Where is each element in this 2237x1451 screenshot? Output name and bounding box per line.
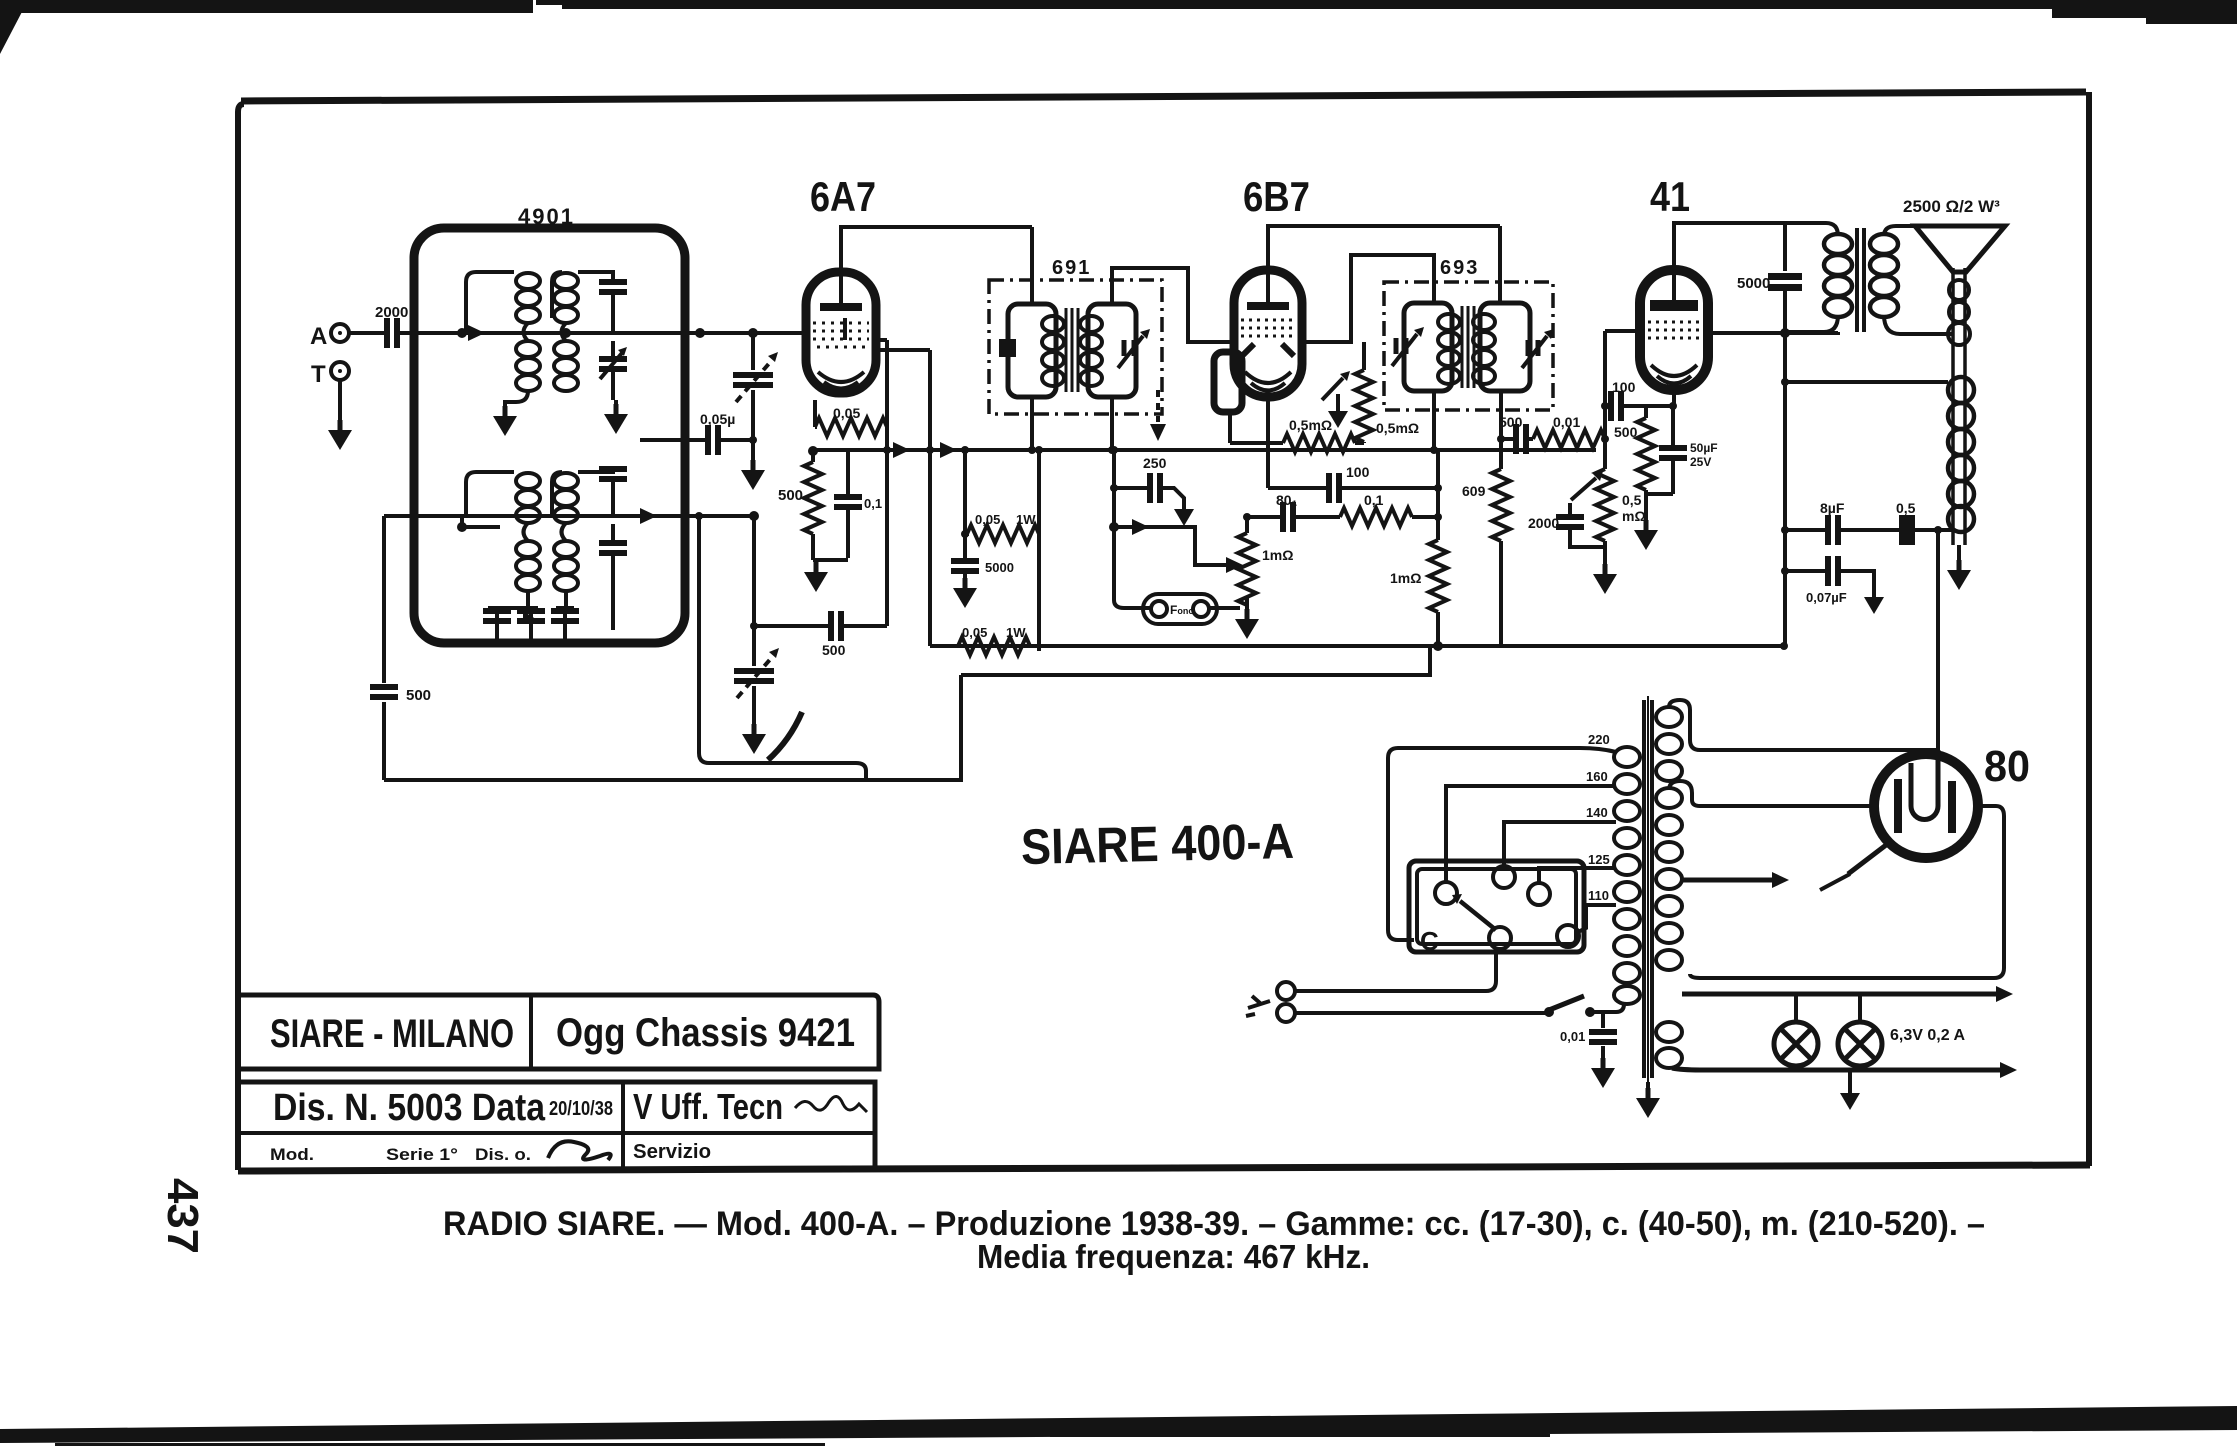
B+ vertical rail xyxy=(1783,333,1787,646)
selector terminal top-left xyxy=(1435,882,1457,904)
arrow on osc bus xyxy=(640,508,657,524)
41 grid dotted rows xyxy=(1648,322,1700,338)
mains plug fork xyxy=(1246,996,1270,1016)
691 secondary winding xyxy=(1080,316,1102,386)
speaker horn cone xyxy=(1915,226,2005,272)
41 plate top wire to output transformer xyxy=(1674,223,1826,270)
41 cathode arcs xyxy=(1651,365,1697,384)
pilot lamp 1 xyxy=(1774,1022,1818,1066)
terminal T xyxy=(331,362,349,380)
svg-text:0,5: 0,5 xyxy=(1622,492,1642,508)
ground of line bypass xyxy=(1591,1058,1615,1088)
svg-text:C: C xyxy=(1420,926,1439,956)
scan artifact: bottom black band xyxy=(0,1406,2237,1443)
heater line top with arrow xyxy=(1682,992,1996,997)
oscillator coil L5 xyxy=(516,473,540,523)
6A7 cathode arcs xyxy=(818,372,864,389)
691 primary top lead xyxy=(1030,227,1034,304)
tap 140 lead xyxy=(1504,822,1616,865)
grid-leak 1M vertical resistor xyxy=(1436,450,1440,646)
693 secondary winding xyxy=(1473,314,1495,384)
svg-text:110: 110 xyxy=(1588,888,1609,903)
svg-text:160: 160 xyxy=(1586,769,1608,784)
80 heater slash xyxy=(1848,842,1890,874)
svg-text:500: 500 xyxy=(406,687,431,704)
svg-text:Dis. N. 5003 Data: Dis. N. 5003 Data xyxy=(273,1087,546,1129)
svg-text:SIARE 400-A: SIARE 400-A xyxy=(1020,813,1294,875)
cathode bypass electrolytic xyxy=(1646,406,1673,520)
svg-text:140: 140 xyxy=(1586,805,1608,820)
volume potentiometer xyxy=(1245,517,1249,611)
svg-text:0,01: 0,01 xyxy=(1553,414,1580,430)
mains terminal upper xyxy=(1277,982,1295,1000)
selector terminal top-mid xyxy=(1493,866,1515,888)
oscillator feedback capacitor 500 xyxy=(754,624,887,628)
dropping resistor 0.05 1W lower xyxy=(958,637,1030,655)
terminal A xyxy=(331,324,349,342)
gang coupling slash xyxy=(768,712,802,760)
output transformer primary winding xyxy=(1824,234,1852,317)
cathode bypass capacitor xyxy=(813,450,848,560)
svg-text:0,5mΩ: 0,5mΩ xyxy=(1376,420,1419,436)
table row2 divider xyxy=(621,1082,625,1170)
wire from 0.5 cap junction down to rectifier xyxy=(1936,530,1940,750)
voice coil small loops xyxy=(1948,280,1970,345)
6B7 plate top wire to 693 xyxy=(1268,226,1500,270)
osc coil bottom lead xyxy=(526,591,530,608)
detector out capacitor 100 xyxy=(1268,486,1438,490)
41 screen wire to B+ xyxy=(1708,332,1838,333)
mains wire to selector common xyxy=(1295,950,1496,991)
HV secondary top lead to filament line xyxy=(1669,700,1938,750)
title block table xyxy=(241,995,879,1170)
svg-text:6A7: 6A7 xyxy=(810,173,876,220)
svg-text:693: 693 xyxy=(1440,257,1479,279)
693 secondary can xyxy=(1480,303,1530,391)
svg-text:100: 100 xyxy=(1346,464,1370,480)
6B7 cathode arcs xyxy=(1245,372,1291,391)
svg-text:500: 500 xyxy=(822,642,846,658)
scan artifact: top black bar left segment xyxy=(0,0,533,13)
ground of 41 cathode xyxy=(1634,520,1658,550)
ground below osc tuning cap xyxy=(742,724,766,754)
691 primary winding xyxy=(1042,316,1064,386)
aerial secondary coil L2 xyxy=(516,341,540,391)
selector terminal top-right xyxy=(1528,883,1550,905)
svg-text:0,07µF: 0,07µF xyxy=(1806,590,1847,605)
svg-text:Media frequenza: 467 kHz.: Media frequenza: 467 kHz. xyxy=(977,1238,1370,1275)
variable trimmer capacitor RF xyxy=(599,359,627,369)
screen feed resistor 0.05 1W xyxy=(967,525,1039,543)
IF return resistor 609 vertical xyxy=(1499,439,1503,646)
80 right plate wire to HV bottom xyxy=(1690,806,2004,978)
AVC bus xyxy=(961,646,1430,675)
osc grid coil hook xyxy=(552,472,562,518)
691 bottom leads xyxy=(1032,397,1112,450)
svg-text:0,01: 0,01 xyxy=(1560,1029,1585,1044)
grid blocking capacitor 100 xyxy=(1605,404,1646,408)
svg-text:609: 609 xyxy=(1462,483,1486,499)
svg-text:T: T xyxy=(311,361,326,388)
svg-text:50µF: 50µF xyxy=(1690,441,1718,455)
41 cathode lead xyxy=(1646,390,1674,418)
grid coil top to trimmer wire xyxy=(578,272,613,282)
osc grid leak vertical wire xyxy=(885,340,889,626)
coil link wire xyxy=(524,323,529,341)
mains switch xyxy=(1544,1007,1554,1017)
svg-text:2500 Ω/2 W³: 2500 Ω/2 W³ xyxy=(1903,197,2000,216)
svg-text:0,1: 0,1 xyxy=(864,496,882,511)
heater line bottom with arrow xyxy=(1672,1068,2000,1070)
80 plate right xyxy=(1948,781,1956,833)
aerial coil L1 hook wire xyxy=(466,272,514,333)
mains wire to switch xyxy=(1295,1011,1545,1015)
scan artifact: top-left diagonal fold mark xyxy=(0,8,24,54)
filter capacitor 8uF xyxy=(1828,515,1838,545)
oscillator section frame wire xyxy=(699,516,866,780)
bias arrow xyxy=(1571,478,1596,500)
691 secondary top lead to 6B7 xyxy=(1112,268,1234,342)
decoupling capacitor 250 xyxy=(1114,488,1184,502)
coupling capacitor 500 to 41 grid xyxy=(1501,437,1533,441)
6B7 anode bar xyxy=(1247,302,1289,310)
693 primary winding xyxy=(1438,314,1460,384)
svg-text:0,05: 0,05 xyxy=(833,405,860,421)
svg-text:4901: 4901 xyxy=(518,204,575,229)
handwritten signature in row2 xyxy=(795,1096,867,1112)
693 secondary bottom lead xyxy=(1499,391,1503,439)
voltage selector box inner xyxy=(1417,869,1576,944)
6A7 screen exit wires xyxy=(874,340,930,350)
selector terminal bottom-mid xyxy=(1489,927,1511,949)
padder capacitor top of osc right xyxy=(578,466,613,472)
tube 6B7 envelope xyxy=(1234,270,1302,397)
AVC resistor 0.5M horizontal xyxy=(1230,412,1364,443)
svg-text:100: 100 xyxy=(1612,379,1636,395)
series capacitor 500 on AVC return xyxy=(382,516,386,780)
oscillator tuning gang section xyxy=(752,516,756,726)
HV secondary winding loops xyxy=(1656,707,1682,970)
line bypass capacitor 0.01 xyxy=(1601,1012,1605,1060)
ground of pot xyxy=(1235,609,1259,639)
693 primary bottom lead xyxy=(1432,391,1436,450)
svg-text:2000: 2000 xyxy=(1528,515,1559,531)
B+ feed line into field coil xyxy=(1785,380,1948,384)
core ground xyxy=(1646,1082,1650,1090)
small ground at AVC xyxy=(1336,394,1340,404)
6A7 grid dotted rows xyxy=(813,323,869,347)
Fono jack xyxy=(1143,594,1217,624)
svg-text:A: A xyxy=(310,323,327,350)
svg-text:2000: 2000 xyxy=(375,304,408,321)
ground of RF trimmer xyxy=(604,404,628,434)
svg-text:250: 250 xyxy=(1143,455,1167,471)
svg-text:mΩ: mΩ xyxy=(1622,508,1646,524)
svg-text:6B7: 6B7 xyxy=(1243,173,1310,220)
svg-text:5000: 5000 xyxy=(985,560,1014,575)
grid coil L3 xyxy=(554,273,578,323)
6B7 side shield tab xyxy=(1214,352,1242,412)
fixed padder capacitor top RF xyxy=(599,282,627,292)
oscillator section lower: hook wire xyxy=(466,472,514,516)
wire A to coil box xyxy=(349,331,460,335)
rectifier tube 80 xyxy=(1874,754,1978,858)
mains terminal lower xyxy=(1277,1004,1295,1022)
svg-text:0,05µ: 0,05µ xyxy=(700,411,735,427)
pilot lamp 2 xyxy=(1838,1022,1882,1066)
padder capacitor row right xyxy=(556,608,574,643)
table row2+3 box xyxy=(241,1082,875,1170)
antenna series capacitor 2000 xyxy=(387,318,397,348)
selector terminal bottom-right xyxy=(1557,925,1579,947)
svg-text:Dis. o.: Dis. o. xyxy=(475,1145,531,1164)
svg-text:0,05: 0,05 xyxy=(962,625,987,640)
coil link wire xyxy=(562,523,567,541)
6B7 diode line to 693 primary jog xyxy=(1302,255,1434,342)
voltage selector box outer xyxy=(1409,861,1584,952)
svg-text:Servizio: Servizio xyxy=(633,1141,711,1163)
svg-text:0,5: 0,5 xyxy=(1896,500,1916,516)
tube 41 envelope xyxy=(1640,270,1708,390)
svg-text:V Uff. Tecn: V Uff. Tecn xyxy=(633,1086,783,1127)
screen resistor 0.05 zigzag xyxy=(815,400,887,450)
691 secondary trimmer xyxy=(1124,340,1134,356)
tube 6A7 envelope xyxy=(806,272,876,393)
svg-text:8µF: 8µF xyxy=(1820,500,1845,516)
5000 tone capacitor xyxy=(1783,223,1787,333)
coil unit 4901 box xyxy=(414,228,685,643)
AVC dashed arrow at 691 xyxy=(1156,390,1160,422)
output transformer core xyxy=(1857,228,1864,332)
AF take-off wire to pot wiper xyxy=(1114,527,1228,565)
grid return resistor 0.5M vertical xyxy=(1362,342,1366,443)
svg-text:1mΩ: 1mΩ xyxy=(1390,570,1421,586)
ground of screen bypass xyxy=(953,578,977,608)
ground of bias pot xyxy=(1593,564,1617,594)
tap 110 lead xyxy=(1578,905,1616,932)
grid coil hook wire xyxy=(552,272,562,318)
svg-text:Ogg Chassis 9421: Ogg Chassis 9421 xyxy=(556,1011,855,1055)
dashed shield box 691 xyxy=(989,280,1162,414)
80 left plate wire to HV top xyxy=(1669,781,1874,806)
tap 160 lead xyxy=(1446,786,1616,881)
693 primary can xyxy=(1404,303,1452,391)
svg-text:80: 80 xyxy=(1984,742,2030,791)
junction dot xyxy=(457,522,467,532)
cathode bias resistor 500 xyxy=(1637,418,1655,490)
ground of 0.07 xyxy=(1864,590,1884,614)
secondary bottom lead xyxy=(1884,315,1952,334)
coil link wire xyxy=(524,523,529,541)
schematic frame border xyxy=(238,92,2090,1171)
primary winding loops xyxy=(1614,747,1640,1004)
scan artifact: top black bar right segment xyxy=(562,0,2237,9)
series resistor 0.01 xyxy=(1533,430,1605,448)
B+ centre tap arrow xyxy=(1682,878,1772,883)
svg-text:0,05: 0,05 xyxy=(975,512,1000,527)
693 core lines xyxy=(1462,306,1474,388)
filter capacitor 0.5 (solid) xyxy=(1902,515,1912,545)
AVC arrow xyxy=(1322,378,1343,400)
field coil large loops xyxy=(1948,377,1974,532)
dashed shield box 693 xyxy=(1384,282,1553,410)
bias capacitor 2000 xyxy=(1570,503,1605,547)
wire T to ground xyxy=(338,380,342,424)
AF coupling capacitor 80 xyxy=(1247,515,1340,519)
trimmer wire xyxy=(611,292,615,356)
wire trimmer to ground xyxy=(613,372,616,406)
cathode resistor 500 xyxy=(811,451,815,462)
screen feed wire with 250 bypass xyxy=(1112,450,1116,600)
svg-text:41: 41 xyxy=(1650,173,1690,220)
trimmer arrow xyxy=(600,353,622,379)
6B7 plate stem xyxy=(1266,274,1270,302)
secondary top lead to voice coil xyxy=(1884,226,1915,236)
6B7 cathode wire down xyxy=(1266,397,1270,488)
table row1 box: SIARE-MILANO / Ogg Chassis xyxy=(241,995,879,1069)
main distribution bus xyxy=(812,448,1596,452)
svg-text:1W: 1W xyxy=(1016,512,1036,527)
wire L2 to ground xyxy=(505,391,528,408)
41 grid wire xyxy=(1605,331,1640,469)
table row2/3 separator xyxy=(241,1131,875,1135)
ground below tuning cap xyxy=(741,460,765,490)
vertical feed wire xyxy=(1037,450,1041,651)
693 secondary trimmer xyxy=(1528,340,1538,356)
svg-text:500: 500 xyxy=(1499,414,1523,430)
ground of heater line xyxy=(1848,1070,1852,1086)
80 filament U xyxy=(1911,750,1938,820)
ground below field coil xyxy=(1957,545,1961,562)
svg-text:691: 691 xyxy=(1052,257,1091,279)
691 primary fixed capacitor blob xyxy=(999,339,1016,357)
691 core lines xyxy=(1066,308,1078,392)
wire coil box to 6A7 grid xyxy=(685,331,806,335)
bias bus lower xyxy=(930,644,1784,648)
filter capacitor 8uF line xyxy=(1785,528,1953,532)
aerial primary coil L1 xyxy=(516,273,540,323)
svg-text:1W: 1W xyxy=(1006,625,1026,640)
oscillator coil L6 xyxy=(516,541,540,591)
svg-text:125: 125 xyxy=(1588,852,1610,867)
series resistor 0.1 xyxy=(1340,508,1412,526)
svg-text:Serie 1°: Serie 1° xyxy=(386,1145,458,1164)
coupling capacitor 0.05u xyxy=(640,438,753,442)
ground of aerial coil xyxy=(493,406,517,436)
svg-text:437: 437 xyxy=(158,1178,207,1254)
table row1 divider xyxy=(529,995,533,1069)
6A7 plate stem xyxy=(841,274,845,340)
693 primary trimmer xyxy=(1396,338,1406,354)
coil link wire xyxy=(562,323,567,341)
arrow on grid bus xyxy=(468,325,485,341)
ground below T xyxy=(328,420,352,450)
osc trimmer capacitor mid xyxy=(611,482,615,540)
svg-text:80₁: 80₁ xyxy=(1276,492,1298,508)
svg-text:Mod.: Mod. xyxy=(270,1145,314,1164)
ground of cathode xyxy=(804,562,828,592)
primary top corner xyxy=(1785,223,1838,332)
row3 signature squiggle xyxy=(548,1141,611,1160)
6B7 diode plates xyxy=(1242,344,1294,356)
svg-text:20/10/38: 20/10/38 xyxy=(549,1098,613,1120)
tuning gang capacitor RF section xyxy=(751,333,755,462)
tap 125 lead xyxy=(1539,868,1616,884)
svg-text:6,3V 0,2 A: 6,3V 0,2 A xyxy=(1890,1027,1965,1044)
svg-text:220: 220 xyxy=(1588,732,1610,747)
svg-text:0,5mΩ: 0,5mΩ xyxy=(1289,417,1332,433)
svg-text:SIARE - MILANO: SIARE - MILANO xyxy=(270,1012,514,1056)
svg-text:Fono: Fono xyxy=(1170,603,1194,617)
power transformer core xyxy=(1644,700,1652,1078)
oscillator coil L7 xyxy=(554,473,578,523)
filament winding loops xyxy=(1656,1022,1682,1068)
output transformer secondary winding xyxy=(1870,234,1898,317)
svg-text:25V: 25V xyxy=(1690,455,1711,469)
svg-text:1mΩ: 1mΩ xyxy=(1262,547,1293,563)
grid coil L4 xyxy=(554,341,578,391)
6A7 anode bar xyxy=(820,303,862,311)
bias potentiometer 0.5M xyxy=(1596,469,1614,541)
svg-text:5000: 5000 xyxy=(1737,275,1770,292)
80 plate left xyxy=(1894,779,1902,833)
osc coil bottom lead xyxy=(564,591,568,608)
mains tap 220 lead xyxy=(1388,748,1616,940)
selector rotary arm arrow xyxy=(1460,901,1496,930)
padder capacitor row mid (solid) xyxy=(529,608,533,643)
grid bus through box xyxy=(414,331,685,335)
long AVC return wire bottom left xyxy=(384,675,961,780)
oscillator bus through box xyxy=(384,514,754,518)
padder capacitor row left xyxy=(495,608,499,643)
693 secondary top lead xyxy=(1498,226,1502,303)
junction dot A line xyxy=(457,328,467,338)
screen bypass capacitor chain right of 6A7 xyxy=(928,350,932,646)
Fono leads xyxy=(1114,600,1240,608)
scan artifact: top-right thickened bar xyxy=(2052,0,2237,18)
ground of 250 xyxy=(1174,502,1194,526)
691 primary can xyxy=(1008,304,1056,397)
6A7 top plate wire xyxy=(841,227,1032,272)
capacitor 0.07uF line xyxy=(1785,571,1874,590)
tuning arrow dashed xyxy=(736,360,772,402)
svg-text:500: 500 xyxy=(778,487,803,504)
41 anode bar thick xyxy=(1650,300,1698,311)
6B7 grid dotted rows xyxy=(1241,320,1296,336)
691 secondary can xyxy=(1088,304,1136,397)
svg-text:0,1: 0,1 xyxy=(1364,492,1384,508)
oscillator coil L8 xyxy=(554,541,578,591)
voice coil / field coil column rails xyxy=(1953,268,1965,545)
41 plate stem xyxy=(1672,274,1676,300)
svg-text:500: 500 xyxy=(1614,424,1638,440)
